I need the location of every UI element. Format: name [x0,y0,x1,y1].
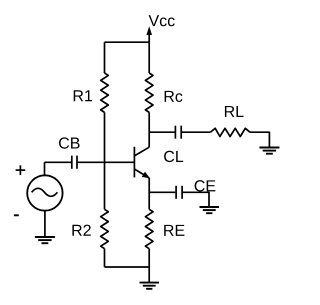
capacitor CE [176,186,182,199]
transistor Q1 emitter arrow [142,172,150,179]
wire main ground lead [148,267,150,283]
ground (main) [140,283,160,289]
wire R1 top lead [104,42,106,73]
wire source to CB [45,161,72,163]
transistor Q1 emitter lead [134,169,149,178]
source V1 circle [27,175,62,210]
wire collector node to CL [149,131,175,133]
label R1 [74,90,92,101]
wire emitter to RE [148,178,150,209]
wire RL to ground [250,132,270,147]
wire emitter node to CE [149,191,175,193]
wire CB corner to source [44,162,46,175]
wire R1 bottom to base node [104,112,106,162]
label RE [164,225,184,236]
transistor Q1 collector lead [134,147,149,156]
resistor Rc [145,73,153,112]
Vcc arrow [146,26,152,42]
resistor R1 [101,73,109,112]
ground (source) [35,237,55,243]
wire R2 top lead [104,162,106,209]
wire CB to base [77,161,134,163]
label CL [164,151,183,162]
node Vcc label [149,15,175,26]
capacitor CL [175,126,181,139]
resistor RL [210,128,250,136]
resistor RE [145,209,153,248]
resistor R2 [101,209,109,248]
capacitor CB [72,156,77,169]
source minus sign [14,214,19,216]
wire source to ground [44,211,46,237]
label R2 [72,225,90,236]
label CB [59,137,80,148]
label RL [225,106,244,117]
source plus sign [16,165,26,175]
wire Rc top lead [148,42,150,73]
source V1 sine wave [32,188,58,196]
ground (CE) [200,207,220,213]
wire CE to ground [182,192,209,207]
label Rc [165,91,183,102]
transistor Q1 base bar [133,147,135,178]
wire CL to RL [181,131,210,133]
wire RE bottom [148,249,150,267]
wire top rail [105,41,150,43]
ground (RL) [259,148,279,154]
label CE [195,180,216,191]
wire bottom rail [105,266,150,268]
wire Rc bottom to collector [148,112,150,147]
wire R2 bottom [104,249,106,267]
